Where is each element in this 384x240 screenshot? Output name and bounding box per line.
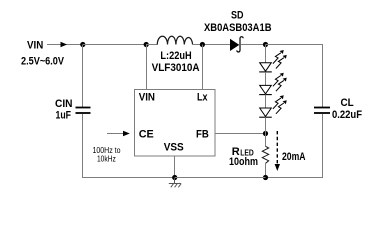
LED D1 — [259, 50, 287, 72]
wire inductor to node Lx — [193, 44, 230, 46]
svg-text:CL: CL — [341, 97, 354, 109]
wire resistor to bottom rail — [265, 163, 267, 177]
wire node A to node B — [83, 44, 146, 46]
current arrow 20mA — [275, 131, 306, 171]
wire pin VSS to ground rail — [174, 156, 176, 178]
wire node B down to pin VIN — [146, 45, 148, 90]
svg-text:CE: CE — [139, 128, 154, 140]
svg-text:10kHz: 10kHz — [97, 155, 116, 164]
svg-text:VSS: VSS — [164, 141, 184, 153]
capacitor CIN 1uF — [55, 98, 91, 122]
wire node C down to LED1 — [265, 45, 267, 64]
svg-text:L:22uH: L:22uH — [160, 50, 191, 62]
node CE frequency label — [93, 146, 121, 163]
inductor L1 L:22uH VLF3010A — [152, 36, 200, 74]
schottky diode SD XB0ASB03A1B — [204, 9, 272, 52]
wire LED3 to node D — [265, 117, 267, 133]
wire node D to resistor — [265, 134, 267, 147]
LED D2 — [259, 73, 287, 95]
node Lx junction dot — [200, 42, 205, 47]
wire bottom rail node E to VSS — [175, 177, 266, 179]
resistor RLED 10ohm — [229, 146, 269, 168]
wire node C to CL branch — [266, 45, 323, 108]
svg-text:VLF3010A: VLF3010A — [152, 62, 200, 74]
LED D3 — [259, 95, 287, 117]
wire LED1 to LED2 — [265, 72, 267, 86]
wire CL to bottom rail — [266, 114, 323, 178]
wire node Lx down to pin Lx — [202, 45, 204, 90]
svg-text:1uF: 1uF — [56, 109, 72, 121]
wire node A down to CIN — [82, 45, 84, 108]
node VIN label — [21, 39, 65, 67]
svg-text:2.5V~6.0V: 2.5V~6.0V — [21, 56, 65, 68]
wire pin FB to node D — [215, 133, 266, 135]
svg-text:CIN: CIN — [55, 98, 73, 110]
svg-text:FB: FB — [196, 128, 209, 140]
node C junction dot — [263, 42, 268, 47]
wire VIN input to node A — [47, 42, 83, 47]
svg-text:0.22uF: 0.22uF — [332, 109, 362, 121]
wire node B to inductor — [146, 44, 158, 46]
wire LED2 to LED3 — [265, 95, 267, 109]
svg-text:SD: SD — [231, 9, 244, 21]
capacitor CL 0.22uF — [314, 97, 362, 121]
node D junction dot — [263, 131, 268, 136]
ground — [169, 178, 181, 188]
svg-text:XB0ASB03A1B: XB0ASB03A1B — [204, 22, 272, 34]
svg-text:Lx: Lx — [197, 91, 208, 103]
node B junction dot — [144, 42, 149, 47]
wire CIN to bottom rail — [83, 114, 176, 178]
wire diode to node C — [241, 44, 265, 46]
node E junction dot — [263, 175, 268, 180]
svg-text:10ohm: 10ohm — [229, 156, 258, 168]
svg-text:20mA: 20mA — [282, 151, 306, 163]
svg-text:VIN: VIN — [27, 39, 43, 51]
svg-text:VIN: VIN — [139, 91, 155, 103]
node A junction dot — [80, 42, 85, 47]
IC U1 body with pins VIN Lx CE FB VSS — [135, 90, 216, 157]
wire CE input arrow — [107, 131, 130, 136]
node VSS junction dot — [172, 175, 177, 180]
